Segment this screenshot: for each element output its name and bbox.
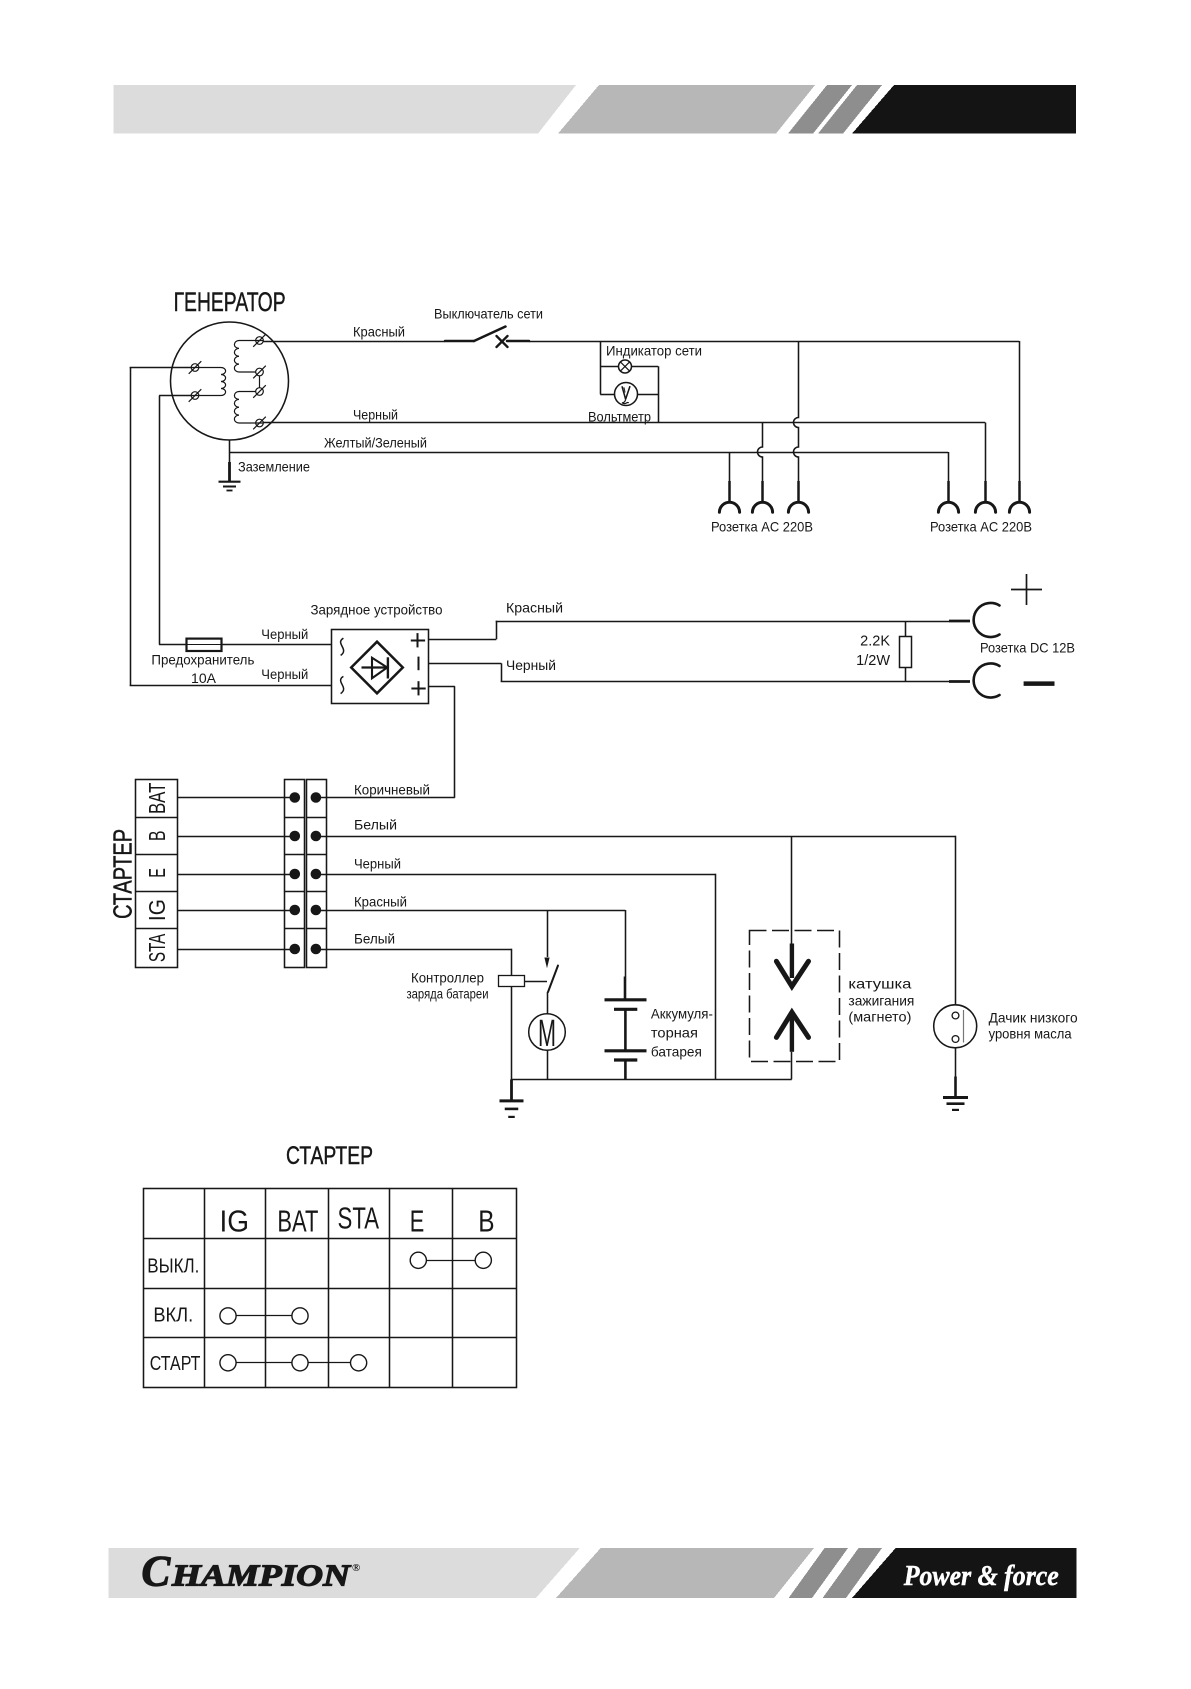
svg-text:ВЫКЛ.: ВЫКЛ.: [147, 1256, 199, 1278]
svg-text:(магнето): (магнето): [848, 1008, 911, 1024]
svg-text:Предохранитель: Предохранитель: [151, 652, 254, 668]
svg-text:Розетка AC 220В: Розетка AC 220В: [930, 518, 1032, 534]
svg-text:Дачик низкого: Дачик низкого: [989, 1009, 1078, 1025]
svg-text:10А: 10А: [191, 670, 217, 686]
svg-text:B: B: [144, 831, 170, 842]
svg-text:C: C: [142, 1549, 172, 1596]
svg-text:Коричневый: Коричневый: [354, 781, 430, 797]
svg-text:Розетка AC 220В: Розетка AC 220В: [711, 518, 813, 534]
svg-text:Розетка DC 12В: Розетка DC 12В: [980, 639, 1075, 655]
svg-text:Черный: Черный: [353, 406, 398, 422]
svg-text:Аккумуля-: Аккумуля-: [651, 1005, 713, 1021]
svg-text:2.2K: 2.2K: [860, 633, 890, 649]
svg-text:катушка: катушка: [848, 975, 911, 991]
svg-text:IG: IG: [144, 899, 170, 921]
svg-text:заряда батареи: заряда батареи: [407, 986, 489, 1002]
svg-text:M: M: [538, 1013, 556, 1055]
svg-text:торная: торная: [651, 1024, 698, 1040]
svg-text:Черный: Черный: [506, 657, 556, 673]
svg-text:Красный: Красный: [354, 893, 407, 909]
svg-text:Красный: Красный: [506, 599, 563, 615]
svg-text:Черный: Черный: [261, 666, 308, 682]
svg-text:СТАРТ: СТАРТ: [150, 1353, 201, 1375]
svg-text:Выключатель сети: Выключатель сети: [434, 305, 543, 321]
svg-text:Белый: Белый: [354, 816, 397, 832]
svg-text:Белый: Белый: [354, 930, 395, 946]
svg-text:E: E: [410, 1204, 425, 1239]
svg-text:Вольтметр: Вольтметр: [588, 408, 651, 424]
svg-text:1/2W: 1/2W: [856, 653, 890, 669]
svg-text:Красный: Красный: [353, 323, 405, 339]
svg-text:Черный: Черный: [261, 626, 308, 642]
svg-text:Черный: Черный: [354, 855, 401, 871]
svg-text:E: E: [144, 868, 170, 878]
svg-text:Power & force: Power & force: [903, 1560, 1059, 1592]
svg-text:ГЕНЕРАТОР: ГЕНЕРАТОР: [174, 287, 286, 317]
svg-text:СТАРТЕР: СТАРТЕР: [108, 829, 138, 919]
svg-text:IG: IG: [220, 1204, 250, 1239]
svg-text:ВКЛ.: ВКЛ.: [153, 1304, 193, 1326]
svg-text:®: ®: [352, 1562, 360, 1574]
svg-text:STA: STA: [338, 1201, 380, 1236]
svg-text:Зарядное устройство: Зарядное устройство: [311, 601, 443, 617]
svg-text:BAT: BAT: [277, 1204, 318, 1239]
svg-text:HAMPION: HAMPION: [171, 1558, 352, 1593]
svg-text:BAT: BAT: [144, 783, 170, 815]
svg-text:уровня масла: уровня масла: [989, 1026, 1072, 1042]
svg-text:батарея: батарея: [651, 1043, 702, 1059]
svg-text:СТАРТЕР: СТАРТЕР: [286, 1142, 373, 1170]
svg-text:STA: STA: [144, 933, 170, 962]
svg-text:зажигания: зажигания: [848, 992, 914, 1008]
svg-text:Заземление: Заземление: [238, 458, 310, 474]
svg-text:Желтый/Зеленый: Желтый/Зеленый: [324, 434, 427, 450]
svg-text:B: B: [478, 1204, 494, 1239]
svg-text:Контроллер: Контроллер: [411, 969, 484, 985]
svg-text:Индикатор сети: Индикатор сети: [606, 342, 702, 358]
